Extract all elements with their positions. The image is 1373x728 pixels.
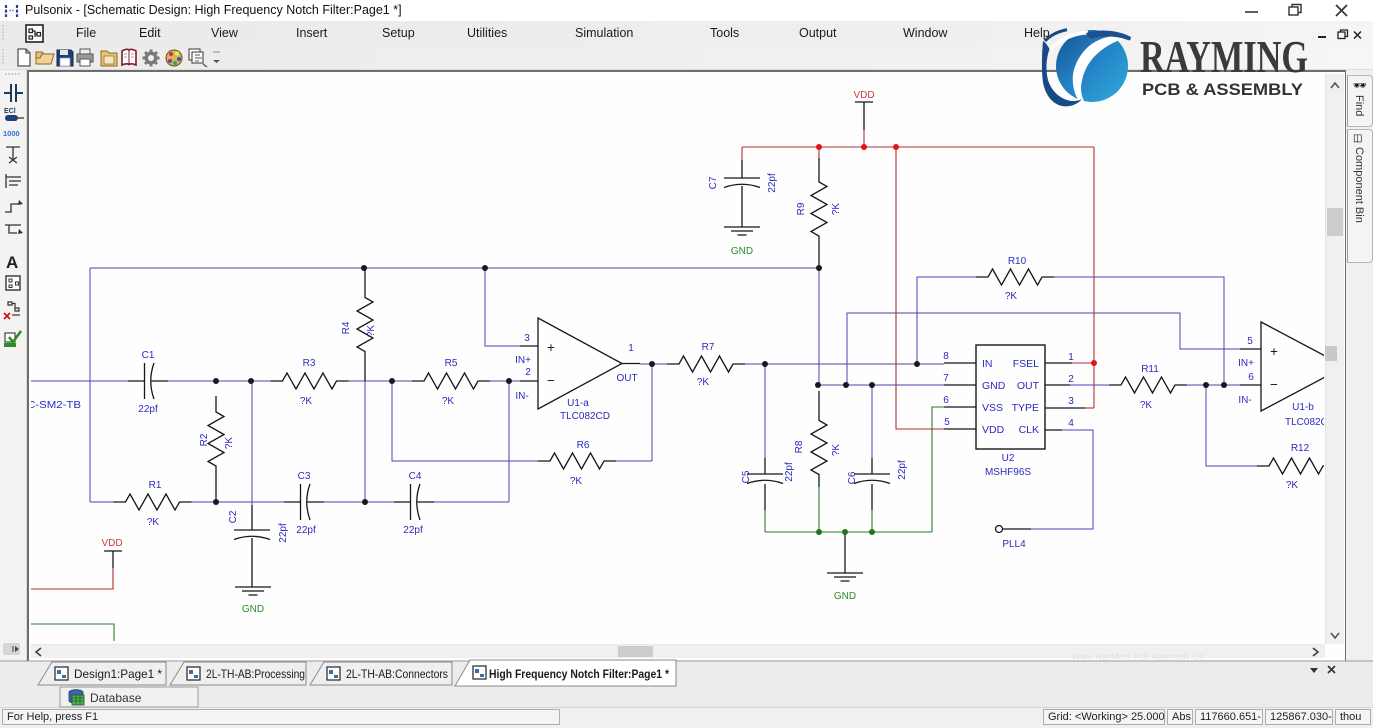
svg-text:3: 3 — [524, 333, 530, 344]
svg-text:TLC082CD: TLC082CD — [560, 411, 610, 422]
capacitor C6 — [854, 458, 890, 510]
wire VDD left rail — [31, 568, 113, 589]
svg-text:?K: ?K — [697, 377, 710, 388]
logo globe — [1056, 30, 1128, 102]
svg-text:R6: R6 — [577, 440, 590, 451]
svg-text:IN+: IN+ — [515, 355, 531, 366]
icon gear — [143, 50, 160, 67]
svg-text:22pf: 22pf — [296, 525, 316, 536]
svg-text:+: + — [547, 340, 555, 355]
svg-text:U2: U2 — [1002, 453, 1015, 464]
svg-text:IN: IN — [982, 358, 993, 370]
svg-text:−: − — [547, 373, 555, 388]
logo navy left crescent — [1042, 41, 1082, 106]
icon save — [57, 50, 73, 66]
svg-text:R12: R12 — [1291, 443, 1310, 454]
svg-text:5: 5 — [944, 417, 950, 428]
svg-text:6: 6 — [1248, 372, 1254, 383]
resistor R9 — [811, 158, 827, 268]
wire R7 to U2 pin8 — [745, 363, 944, 365]
svg-text:?K: ?K — [442, 396, 455, 407]
wire pin7 horizontal — [819, 384, 944, 386]
svg-text:4: 4 — [1068, 418, 1074, 429]
power VDD top symbol — [855, 102, 873, 130]
svg-text:MSHF96S: MSHF96S — [985, 467, 1031, 478]
wire VDD red bus — [742, 146, 1094, 148]
svg-text:2L-TH-AB:Processing: 2L-TH-AB:Processing — [206, 667, 305, 681]
svg-text:?K: ?K — [1005, 291, 1018, 302]
svg-text:?K: ?K — [831, 203, 842, 216]
wire U2 out to R11 — [1070, 384, 1240, 386]
svg-text:VSS: VSS — [982, 402, 1003, 414]
resistor R4 — [357, 268, 373, 381]
svg-text:R4: R4 — [341, 321, 352, 334]
wire lower horizontal segments — [90, 501, 509, 503]
power VDD left symbol — [104, 551, 122, 568]
svg-text:C6: C6 — [847, 471, 858, 484]
menu schematic icon — [26, 25, 43, 42]
svg-text:GND: GND — [982, 380, 1006, 392]
svg-text:Database: Database — [90, 691, 142, 705]
resistor R12 — [1257, 458, 1335, 474]
wire red right vertical FSEL-TYPE — [1093, 147, 1095, 408]
svg-text:+: + — [1270, 344, 1278, 359]
svg-text:R10: R10 — [1008, 256, 1027, 267]
wire IN- to C4 vertical — [508, 381, 510, 502]
svg-text:R2: R2 — [199, 433, 210, 446]
wire R4 bottom to lower wire — [364, 381, 366, 502]
wire green U2 VSS — [932, 407, 944, 532]
wire pin7 net to U1-b IN+ — [847, 313, 1240, 385]
ground under C7 — [724, 227, 760, 235]
capacitor C3 — [284, 484, 324, 520]
capacitor C5 — [747, 458, 783, 510]
svg-text:C7: C7 — [708, 176, 719, 189]
wire pin4 to PLL4 — [1031, 430, 1093, 529]
title bar — [0, 0, 1373, 21]
junction dots black — [361, 265, 367, 271]
icon layers — [189, 49, 207, 67]
wire red vertical to U2 VDD pin — [896, 147, 944, 429]
faint watermark text — [1072, 652, 1242, 662]
tool ECl component — [4, 108, 24, 121]
ground under C2 — [235, 587, 271, 595]
capacitor C4 — [394, 484, 434, 520]
svg-text:6: 6 — [943, 395, 949, 406]
svg-text:PCB & ASSEMBLY: PCB & ASSEMBLY — [1142, 80, 1304, 99]
icon print — [77, 49, 93, 66]
wire top horizontal net — [90, 267, 819, 269]
tool wire T — [5, 225, 23, 234]
icon book — [122, 49, 136, 65]
svg-text:RAYMING: RAYMING — [1140, 31, 1308, 82]
svg-text:C-SM2-TB: C-SM2-TB — [27, 400, 81, 411]
tool validate — [4, 331, 21, 347]
wire green C6 tail — [871, 510, 873, 532]
tool stitch — [6, 147, 20, 163]
resistor R11 — [1109, 377, 1187, 393]
svg-text:2: 2 — [525, 367, 531, 378]
svg-text:U1-b: U1-b — [1292, 402, 1314, 413]
svg-text:PLL4: PLL4 — [1002, 539, 1026, 550]
toolbar grip — [2, 49, 4, 65]
wire C7 stem red — [741, 147, 743, 160]
wire red pin3 stub — [1085, 407, 1094, 409]
wire C5 stem — [764, 364, 766, 474]
svg-text:VDD: VDD — [853, 90, 874, 101]
wire green left rail — [31, 624, 114, 641]
resistor R3 — [271, 373, 349, 389]
svg-text:FSEL: FSEL — [1013, 358, 1039, 370]
logo swoosh white thin top arc — [1051, 33, 1088, 50]
tool bus — [6, 174, 21, 188]
svg-text:VDD: VDD — [101, 538, 122, 549]
svg-text:C5: C5 — [741, 470, 752, 483]
connector PLL4 — [996, 526, 1003, 533]
wire IN+ branch — [485, 268, 522, 346]
svg-text:?K: ?K — [300, 396, 313, 407]
icon new — [18, 49, 30, 66]
svg-text:?K: ?K — [831, 444, 842, 457]
svg-text:TYPE: TYPE — [1012, 402, 1039, 414]
svg-text:IN-: IN- — [515, 391, 528, 402]
bottom tab rows — [0, 661, 1373, 687]
op-amp U1-a — [538, 318, 622, 409]
icon folder doc — [101, 51, 117, 66]
resistor R1 — [114, 494, 192, 510]
svg-text:R11: R11 — [1141, 364, 1159, 375]
ground mid — [827, 532, 863, 581]
svg-text:R9: R9 — [796, 202, 807, 215]
wire green gnd bus — [765, 531, 932, 533]
resistor R5 — [412, 373, 490, 389]
svg-text:TLC082CD: TLC082CD — [1285, 417, 1335, 428]
svg-text:?K: ?K — [1286, 480, 1299, 491]
MDI area chrome — [0, 70, 27, 661]
wire op-amp out to R7 — [640, 363, 667, 365]
wire red pin1 stub — [1072, 362, 1094, 364]
svg-text:C3: C3 — [298, 471, 311, 482]
svg-text:8: 8 — [943, 351, 949, 362]
capacitor C2 — [234, 505, 270, 587]
wire mid horizontal segments — [31, 380, 520, 382]
svg-text:IN+: IN+ — [1238, 358, 1254, 369]
toolbar — [0, 46, 1373, 70]
capacitor C7 — [724, 160, 760, 227]
svg-text:22pf: 22pf — [784, 462, 795, 482]
svg-text:1: 1 — [628, 343, 634, 354]
resistor R8 — [811, 391, 827, 487]
wire R10 net — [917, 277, 1224, 385]
junction dots green — [816, 529, 822, 535]
wire feedback right — [616, 364, 652, 461]
svg-text:22pf: 22pf — [138, 404, 158, 415]
wire VDD symbol stem red — [863, 130, 865, 147]
svg-text:IN-: IN- — [1238, 395, 1251, 406]
tool block — [6, 276, 20, 290]
svg-text:CLK: CLK — [1019, 424, 1039, 436]
svg-text:R1: R1 — [149, 480, 162, 491]
svg-text:?K: ?K — [224, 437, 235, 450]
svg-text:22pf: 22pf — [767, 173, 778, 193]
svg-text:GND: GND — [731, 246, 753, 257]
svg-text:GND: GND — [242, 604, 264, 615]
svg-text:?K: ?K — [366, 325, 377, 338]
svg-text:U1-a: U1-a — [567, 398, 589, 409]
logo navy crescent hook — [1045, 30, 1067, 41]
wire R9 top stub red — [818, 147, 820, 160]
svg-text:5: 5 — [1247, 336, 1253, 347]
wire green C5 tail — [764, 510, 766, 532]
resistor R10 — [976, 269, 1054, 285]
menubar grip — [2, 25, 4, 41]
logo navy tip arc — [1086, 31, 1131, 41]
svg-text:OUT: OUT — [1017, 380, 1040, 392]
wire R9 bottom vertical to R8 — [818, 268, 820, 385]
icon open — [36, 52, 54, 64]
svg-text:22pf: 22pf — [403, 525, 423, 536]
svg-text:Design1:Page1 *: Design1:Page1 * — [74, 667, 162, 681]
svg-text:R7: R7 — [702, 342, 715, 353]
resistor R7 — [667, 356, 745, 372]
svg-text:C1: C1 — [142, 350, 155, 361]
svg-text:3: 3 — [1068, 396, 1074, 407]
palette grip — [5, 73, 21, 75]
resistor R2 — [208, 396, 224, 502]
wire C6 stem — [871, 385, 873, 474]
window minimize — [1245, 11, 1258, 13]
icon palette — [166, 50, 182, 66]
svg-text:C4: C4 — [409, 471, 422, 482]
resistor R6 — [538, 453, 616, 469]
window close — [1336, 5, 1347, 16]
svg-text:R5: R5 — [445, 358, 458, 369]
svg-text:High Frequency Notch Filter:Pa: High Frequency Notch Filter:Page1 * — [489, 667, 669, 681]
svg-text:OUT: OUT — [616, 373, 637, 384]
op-amp U1-b — [1261, 322, 1345, 411]
tool probe — [4, 84, 23, 102]
svg-text:?K: ?K — [147, 517, 160, 528]
svg-text:R8: R8 — [794, 440, 805, 453]
svg-text:22pf: 22pf — [278, 523, 289, 543]
svg-text:?K: ?K — [1140, 400, 1153, 411]
tool component delete — [4, 302, 20, 319]
svg-text:7: 7 — [943, 373, 949, 384]
svg-text:?K: ?K — [570, 476, 583, 487]
junction dots red — [816, 144, 822, 150]
svg-text:GND: GND — [834, 591, 856, 602]
window restore — [1289, 5, 1301, 16]
svg-text:C2: C2 — [228, 510, 239, 523]
svg-text:2L-TH-AB:Connectors: 2L-TH-AB:Connectors — [346, 667, 448, 681]
toolbar overflow — [213, 51, 220, 53]
child window buttons — [1310, 28, 1370, 44]
wire feedback left vertical — [392, 381, 538, 461]
app icon — [6, 5, 17, 17]
status bar — [0, 707, 1373, 728]
svg-text:R3: R3 — [303, 358, 316, 369]
menu bar — [0, 21, 1373, 46]
capacitor C1 — [128, 363, 168, 399]
svg-text:2: 2 — [1068, 374, 1074, 385]
svg-text:VDD: VDD — [982, 424, 1005, 436]
wire C2 stem upper — [251, 381, 253, 505]
logo swoosh white band — [1073, 36, 1129, 105]
tool wire L — [5, 200, 23, 212]
wire left vertical — [89, 268, 91, 502]
svg-text:1: 1 — [1068, 352, 1074, 363]
RayMing logo — [1020, 20, 1320, 110]
wire green R8 tail — [818, 487, 820, 532]
wire R12 branch — [1206, 385, 1257, 466]
IC U2 — [976, 345, 1045, 449]
palette bottom grip — [3, 643, 20, 655]
svg-text:22pf: 22pf — [897, 460, 908, 480]
canvas edge gray block — [1325, 346, 1337, 361]
svg-text:−: − — [1270, 377, 1278, 392]
